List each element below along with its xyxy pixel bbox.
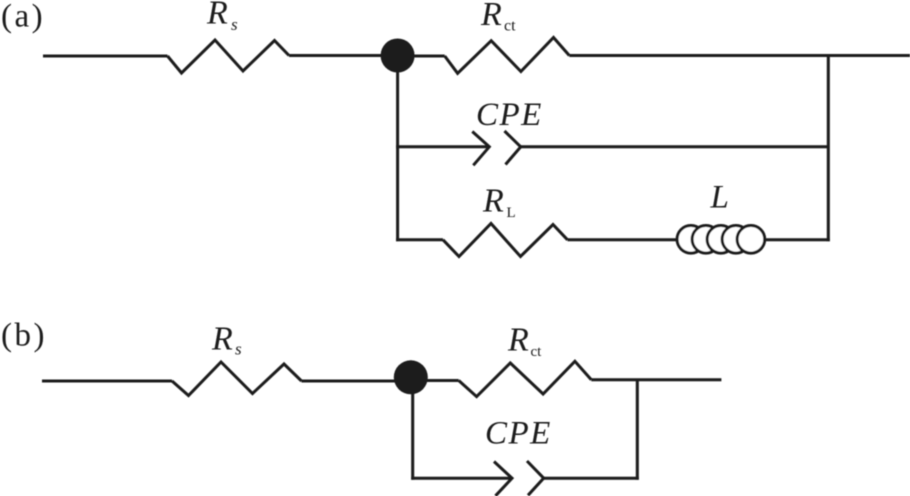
wire: Rs to node (b): [302, 380, 412, 383]
wire: CPE branch left segment (b): [411, 477, 512, 480]
inductor L (a) coil loop 3: [707, 226, 735, 254]
svg-text:(b): (b): [1, 318, 47, 354]
wire: (b) left lead: [42, 380, 172, 383]
svg-text:L: L: [710, 180, 729, 216]
svg-text:L: L: [507, 205, 516, 221]
wire: node to Rct (a): [398, 55, 445, 58]
inductor L (a) coil loop 1: [677, 226, 705, 254]
wire: right vertical branch (b): [636, 380, 639, 480]
wire: inductor to right vertical (a): [765, 238, 830, 241]
CPE symbol (a) chevron 2: [505, 131, 521, 165]
wire: RL branch lead (a): [396, 238, 443, 241]
svg-text:s: s: [235, 340, 242, 359]
svg-text:R: R: [482, 183, 504, 220]
resistor Rs (b): [172, 362, 302, 396]
inductor L (a) coil loop 5: [737, 226, 765, 254]
svg-text:R: R: [507, 322, 529, 359]
svg-text:CPE: CPE: [476, 97, 543, 133]
svg-text:R: R: [480, 0, 502, 33]
svg-text:CPE: CPE: [485, 416, 552, 452]
wire: Rs to node (a): [289, 54, 398, 57]
inductor L (a) coil loop 2: [692, 226, 720, 254]
wire: Rct to right edge (a): [569, 54, 910, 57]
wire: left vertical branch (a): [396, 56, 399, 241]
node junction B (b): [394, 360, 428, 394]
svg-text:s: s: [231, 15, 238, 34]
CPE symbol (b) chevron 1: [494, 462, 512, 496]
wire: CPE branch left segment (a): [396, 145, 489, 148]
wire: (a) left lead: [43, 55, 168, 58]
svg-text:ct: ct: [504, 18, 516, 35]
CPE symbol (a) chevron 1: [472, 132, 489, 166]
resistor Rct (b): [459, 361, 592, 396]
resistor Rs (a): [168, 40, 290, 73]
wire: Rct to right end (b): [591, 378, 721, 381]
svg-text:R: R: [211, 321, 233, 358]
wire: left vertical branch (b): [411, 380, 414, 480]
node junction A (a): [381, 39, 415, 73]
wire: CPE branch right segment (a): [521, 145, 829, 148]
svg-text:(a): (a): [1, 0, 45, 35]
wire: right vertical branch (a): [827, 55, 830, 242]
inductor L (a) coil loop 4: [722, 226, 750, 254]
CPE symbol (b) chevron 2: [527, 461, 544, 495]
wire: RL to inductor (a): [568, 238, 679, 241]
svg-text:R: R: [206, 0, 228, 32]
resistor Rct (a): [445, 38, 570, 74]
wire: node to Rct (b): [411, 379, 459, 382]
svg-text:ct: ct: [531, 344, 543, 360]
wire: CPE branch right segment (b): [544, 477, 639, 480]
resistor RL (a): [443, 224, 568, 257]
